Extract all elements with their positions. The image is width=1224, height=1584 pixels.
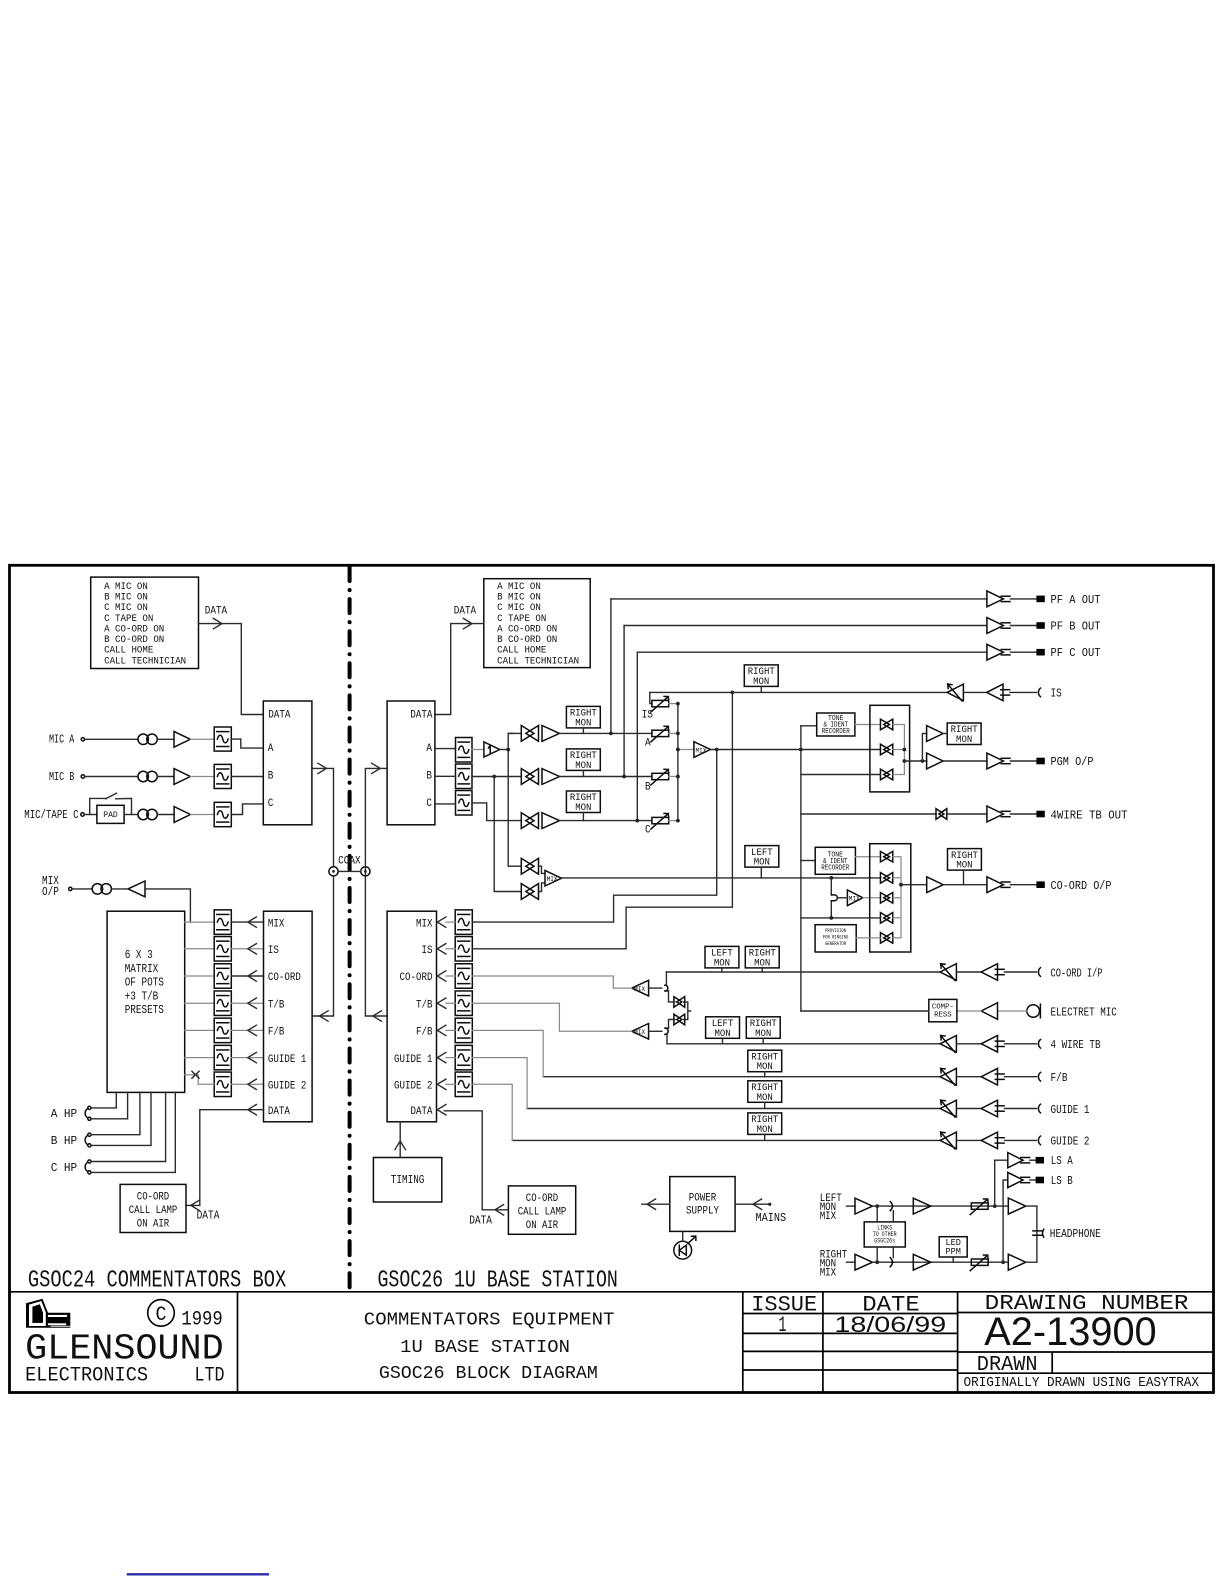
svg-text:CO-ORD I/P: CO-ORD I/P bbox=[1051, 966, 1103, 980]
pf B tap vertical bbox=[623, 626, 625, 777]
links to other gsgc26s box bbox=[864, 1222, 905, 1247]
right mon box (co-ord i/p) bbox=[745, 946, 779, 968]
pot IS bbox=[652, 700, 669, 706]
wire mix o/p to transformer bbox=[72, 888, 92, 890]
electret mic symbol bbox=[1027, 1005, 1040, 1018]
pf B output amp bbox=[987, 618, 1004, 634]
wire bus to pgm mix amp bbox=[678, 749, 694, 751]
wire pf A to square bbox=[1010, 598, 1036, 600]
junction links left bbox=[875, 1204, 879, 1208]
pf B output line bbox=[624, 625, 987, 627]
IS input amp bbox=[987, 684, 1003, 701]
amplifier mic B bbox=[174, 769, 190, 785]
svg-text:PGM O/P: PGM O/P bbox=[1051, 755, 1094, 769]
wire matrix to filter CO-ORD bbox=[185, 975, 215, 977]
tone & ident recorder 2 bbox=[815, 847, 855, 874]
amp channel A bbox=[542, 726, 560, 742]
co-ord output bus bbox=[893, 857, 901, 938]
arrow encoder to coax bbox=[318, 763, 327, 773]
wire amp to filter A bbox=[190, 738, 214, 740]
svg-text:MIX: MIX bbox=[820, 1211, 837, 1223]
filter (channel C) bbox=[456, 791, 473, 816]
svg-text:F/B: F/B bbox=[268, 1027, 285, 1039]
right monitor line bbox=[873, 1261, 1009, 1263]
wire filter to port MIX bbox=[231, 921, 263, 923]
wire coax to left return box bbox=[312, 876, 333, 1016]
svg-text:GUIDE 1: GUIDE 1 bbox=[268, 1054, 307, 1066]
svg-text:MIX: MIX bbox=[268, 918, 285, 930]
wire filter C to encoder port C bbox=[231, 804, 263, 815]
svg-text:IS: IS bbox=[268, 945, 279, 957]
coax connector left bbox=[329, 867, 338, 876]
tone & ident recorder 1 bbox=[817, 713, 855, 736]
right mon box (guide 1) bbox=[748, 1081, 782, 1103]
right DATA port arrow bbox=[437, 1105, 446, 1115]
svg-text:MON: MON bbox=[956, 861, 972, 872]
left status display box bbox=[91, 577, 199, 668]
wire port to filter MIX bbox=[446, 921, 455, 923]
wire matrix to filter T/B bbox=[185, 1002, 215, 1004]
wire port to filter IS bbox=[446, 948, 455, 950]
svg-text:T/B: T/B bbox=[268, 999, 285, 1011]
svg-text:MON: MON bbox=[956, 735, 972, 746]
svg-text:ON AIR: ON AIR bbox=[526, 1220, 559, 1232]
svg-text:RECORDER: RECORDER bbox=[821, 864, 850, 872]
svg-text:GSOC26 1U BASE STATION: GSOC26 1U BASE STATION bbox=[378, 1268, 618, 1295]
electret switch bracket to tb line bbox=[684, 1002, 691, 1020]
wire T4 amp link bbox=[111, 888, 128, 890]
headphone output bus bbox=[1036, 1206, 1038, 1262]
channel C line bbox=[560, 820, 653, 822]
left mon box (co-ord feed) bbox=[745, 846, 779, 868]
right mon box (co-ord out) bbox=[948, 849, 982, 871]
wire matrix to filter IS bbox=[185, 948, 215, 950]
svg-text:LS B: LS B bbox=[1051, 1174, 1073, 1188]
wire filter C jog to switch bbox=[472, 803, 521, 821]
co-ord switch 1 bbox=[880, 851, 889, 862]
svg-text:PAD: PAD bbox=[103, 810, 118, 820]
arrow right call lamp bbox=[495, 1205, 504, 1215]
f/b gain amp bbox=[940, 1068, 956, 1085]
port arrow IS bbox=[248, 944, 257, 954]
wire pot B to bus bbox=[669, 776, 678, 778]
svg-text:1: 1 bbox=[779, 1312, 787, 1338]
right return port arrow T/B bbox=[437, 998, 446, 1008]
svg-text:4 WIRE TB: 4 WIRE TB bbox=[1051, 1038, 1101, 1052]
wire compressor to tb bus bbox=[801, 1010, 929, 1012]
svg-text:DATA: DATA bbox=[197, 1208, 220, 1222]
wire electret switch 2 to tb mix bbox=[669, 1020, 675, 1029]
wire port to filter GUIDE 2 bbox=[446, 1083, 455, 1085]
wire co-ord mix amp to switch 3 bbox=[863, 897, 881, 899]
title block divider issue/date bbox=[822, 1292, 824, 1393]
guide 1 return stepped wire bbox=[472, 1058, 527, 1109]
filter (right return CO-ORD) bbox=[455, 964, 472, 989]
svg-text:C: C bbox=[156, 1304, 167, 1327]
wire filter to port F/B bbox=[231, 1029, 263, 1031]
svg-text:DATA: DATA bbox=[410, 709, 433, 721]
wire encoder to coax bbox=[312, 768, 334, 866]
wire T1 to amp bbox=[157, 738, 174, 740]
encoder multiplexer box (commentator) bbox=[263, 701, 312, 825]
wire recorder 1 to switch bbox=[855, 724, 881, 726]
t/b return stepped wire bbox=[472, 1003, 631, 1031]
right mon box (pgm) bbox=[947, 723, 981, 745]
svg-text:CALL TECHNICIAN: CALL TECHNICIAN bbox=[497, 655, 579, 667]
svg-text:RECORDER: RECORDER bbox=[822, 728, 851, 736]
co-ord i/p line bbox=[666, 971, 940, 973]
wire coax to right decoder bbox=[365, 768, 387, 876]
right return port arrow IS bbox=[437, 944, 446, 954]
co-ord output amp bbox=[987, 877, 1004, 893]
pf C tap vertical bbox=[636, 652, 638, 820]
right mon box (channel B) bbox=[566, 749, 600, 771]
amp channel C bbox=[542, 813, 560, 829]
transformer T4 (mix o/p) bbox=[92, 884, 103, 895]
svg-text:MIX: MIX bbox=[634, 1029, 645, 1036]
svg-text:PF C OUT: PF C OUT bbox=[1051, 646, 1101, 660]
junction ls b tap bbox=[1001, 1260, 1005, 1264]
filter (right return IS) bbox=[455, 937, 472, 962]
svg-text:C: C bbox=[645, 825, 651, 837]
pgm line amp bbox=[927, 753, 944, 769]
IS input jack bbox=[1038, 688, 1040, 697]
svg-text:COMP-: COMP- bbox=[932, 1004, 954, 1012]
right mon box (IS line) bbox=[744, 665, 778, 687]
wire right mon mix to amp bbox=[847, 1261, 856, 1263]
guide 2 gain amp bbox=[940, 1132, 956, 1149]
pgm output bus bbox=[893, 725, 905, 775]
svg-text:A2-13900: A2-13900 bbox=[984, 1310, 1156, 1354]
wire switch to amp 4wire bbox=[947, 813, 987, 815]
amp channel B bbox=[542, 769, 560, 785]
svg-text:GUIDE 1: GUIDE 1 bbox=[1051, 1103, 1090, 1117]
port arrow CO-ORD bbox=[248, 971, 257, 981]
wire amp to compressor bbox=[957, 1010, 981, 1012]
co-ord return stepped wire bbox=[472, 976, 631, 988]
headphone A wires bbox=[91, 1092, 116, 1108]
electret mic amp bbox=[981, 1003, 997, 1020]
svg-text:GSOC26 BLOCK DIAGRAM: GSOC26 BLOCK DIAGRAM bbox=[379, 1364, 598, 1384]
right mon box (guide 2) bbox=[748, 1113, 782, 1135]
wire matrix to filter MIX bbox=[185, 921, 215, 923]
switch channel B bbox=[521, 769, 534, 785]
junction pgm monitor tap bbox=[715, 748, 719, 752]
issue/date row lines bbox=[743, 1313, 958, 1315]
junction IS down-feed bbox=[731, 691, 735, 695]
pf A output amp bbox=[987, 591, 1004, 607]
svg-text:PF A OUT: PF A OUT bbox=[1051, 593, 1101, 607]
junction pgm monitor amp tap bbox=[921, 759, 925, 763]
wire decoder C to filter bbox=[435, 803, 456, 805]
monitor switch A (co-ord feed) bbox=[508, 865, 521, 867]
svg-text:MIC B: MIC B bbox=[49, 770, 74, 784]
svg-text:B HP: B HP bbox=[51, 1134, 77, 1148]
right return port arrow MIX bbox=[437, 917, 446, 927]
co-ord i/p gain amp bbox=[940, 964, 956, 981]
wire co-ord bus out bbox=[901, 884, 927, 886]
wire port to filter T/B bbox=[446, 1002, 455, 1004]
left return decoder box bbox=[264, 911, 313, 1122]
right status DATA wire bbox=[435, 624, 484, 715]
coax link wire bbox=[338, 870, 361, 872]
svg-text:LS A: LS A bbox=[1051, 1154, 1074, 1168]
blue footer underline bbox=[127, 1573, 269, 1575]
wire unity amp to A node bbox=[500, 749, 509, 751]
tb receive mix amp bbox=[632, 1024, 649, 1040]
pot summing bus bbox=[677, 704, 679, 821]
wire decoder A to filter bbox=[435, 748, 456, 750]
pf A output line bbox=[611, 598, 987, 600]
headphone C wires bbox=[91, 1092, 166, 1161]
filter (channel A) bbox=[456, 738, 473, 763]
svg-text:GSGC26s: GSGC26s bbox=[874, 1237, 895, 1244]
svg-text:GUIDE 1: GUIDE 1 bbox=[394, 1054, 433, 1066]
wire right coax drop bbox=[365, 876, 387, 1016]
svg-text:GUIDE 2: GUIDE 2 bbox=[1051, 1135, 1090, 1149]
svg-text:ON AIR: ON AIR bbox=[137, 1219, 170, 1231]
pgm switch matrix box bbox=[870, 705, 910, 792]
wire port to filter GUIDE 1 bbox=[446, 1057, 455, 1059]
right return port arrow CO-ORD bbox=[437, 971, 446, 981]
filter (left return CO-ORD) bbox=[214, 964, 231, 989]
filter (left return F/B) bbox=[214, 1018, 231, 1043]
svg-text:RESS: RESS bbox=[934, 1012, 952, 1020]
headphone left amp bbox=[1008, 1198, 1026, 1214]
wire matrix to filter GUIDE 1 bbox=[185, 1057, 215, 1059]
filter (right return T/B) bbox=[455, 991, 472, 1016]
wire T2 to amp bbox=[157, 776, 174, 778]
svg-text:MIC/TAPE C: MIC/TAPE C bbox=[24, 808, 78, 822]
co-ord i/p input amp bbox=[981, 964, 997, 981]
right return port arrow F/B bbox=[437, 1025, 446, 1035]
amplifier mic C bbox=[174, 807, 190, 823]
junction links right bbox=[875, 1260, 879, 1264]
f/b jack bbox=[1038, 1072, 1040, 1081]
pad bypass switch (mic C) bbox=[90, 798, 132, 814]
headphone B jack bbox=[85, 1136, 87, 1145]
pf B output square bbox=[1036, 622, 1044, 629]
wire filter B to encoder port B bbox=[231, 776, 263, 778]
pgm output amp bbox=[987, 753, 1004, 769]
svg-text:GENERATOR: GENERATOR bbox=[825, 940, 846, 947]
mains input wire bbox=[735, 1203, 770, 1205]
svg-text:C: C bbox=[426, 798, 432, 810]
arrow into left call lamp bbox=[191, 1200, 200, 1210]
guide 1 jack bbox=[1038, 1104, 1040, 1113]
left mon mix amp bbox=[855, 1198, 873, 1214]
port arrow GUIDE 2 bbox=[248, 1079, 257, 1089]
svg-text:COAX: COAX bbox=[338, 855, 361, 867]
4wire tb input amp bbox=[981, 1036, 997, 1053]
svg-text:A: A bbox=[645, 738, 651, 750]
filter (mic A low-pass) bbox=[214, 727, 231, 751]
port arrow MIX bbox=[248, 917, 257, 927]
pot channel A bbox=[652, 730, 669, 736]
filter (right return F/B) bbox=[455, 1018, 472, 1043]
drawing number row lines bbox=[958, 1312, 1214, 1314]
f/b line bbox=[543, 1076, 940, 1078]
unity inverting amp channel A bbox=[484, 742, 500, 757]
pot channel B bbox=[652, 773, 669, 779]
filter (right return MIX) bbox=[455, 910, 472, 935]
4wire output amp bbox=[987, 806, 1004, 822]
svg-text:PRESETS: PRESETS bbox=[125, 1004, 164, 1017]
guide 2 return stepped wire bbox=[472, 1084, 512, 1140]
amplifier mic A bbox=[174, 731, 190, 747]
wire A to switch bbox=[508, 732, 513, 734]
svg-text:A: A bbox=[268, 743, 274, 755]
right mon box (f/b) bbox=[748, 1050, 782, 1072]
svg-text:DATA: DATA bbox=[205, 606, 228, 618]
transformer T3 (mic C) bbox=[138, 809, 149, 820]
copyright symbol bbox=[148, 1300, 175, 1327]
wire bus tee to pgm switch 3 bbox=[801, 774, 881, 776]
filter (left return GUIDE 1) bbox=[214, 1045, 231, 1070]
left DATA port arrow bbox=[248, 1105, 257, 1115]
right mon box (4 wire tb) bbox=[746, 1017, 780, 1039]
svg-text:MIC A: MIC A bbox=[49, 733, 75, 747]
svg-text:DATA: DATA bbox=[454, 606, 477, 618]
wire pot C to bus bbox=[669, 820, 678, 822]
wire pgm bus out bbox=[904, 760, 926, 762]
wire left mon mix to amp bbox=[847, 1205, 856, 1207]
wire electret switch 1 to co-ord mix bbox=[669, 991, 675, 1002]
pf A tap vertical bbox=[610, 599, 612, 734]
co-ord output wire bbox=[943, 884, 987, 886]
ls a feed vertical bbox=[995, 1160, 1008, 1206]
junction co-ord mix tap bbox=[829, 876, 833, 880]
filter (left return IS) bbox=[214, 937, 231, 962]
wire provision to co-ord switch 5 bbox=[856, 937, 880, 939]
channel B line bbox=[560, 776, 653, 778]
wire timing to return box bbox=[399, 1122, 401, 1158]
co-ord mix feed verticals and curly bbox=[830, 878, 832, 918]
svg-text:T/B: T/B bbox=[416, 999, 433, 1011]
arrow into right return box feed bbox=[373, 1011, 382, 1021]
svg-text:C: C bbox=[268, 798, 274, 810]
left DATA port wire to call lamp bbox=[186, 1110, 264, 1206]
left 6x3 matrix of pots box bbox=[107, 911, 185, 1092]
monitor mix amplifier bbox=[545, 870, 562, 886]
svg-text:HEADPHONE: HEADPHONE bbox=[1050, 1227, 1101, 1241]
left status DATA arrow bbox=[213, 618, 222, 628]
right decoder multiplexer box bbox=[387, 701, 435, 825]
svg-text:GLENSOUND: GLENSOUND bbox=[25, 1328, 224, 1369]
svg-text:CALL TECHNICIAN: CALL TECHNICIAN bbox=[104, 655, 186, 667]
svg-text:O/P: O/P bbox=[42, 886, 59, 899]
port arrow T/B bbox=[248, 998, 257, 1008]
filter (left return GUIDE 2) bbox=[214, 1072, 231, 1097]
filter (right return GUIDE 2) bbox=[455, 1072, 472, 1097]
left status DATA wire bbox=[199, 624, 264, 715]
pf C output line bbox=[637, 651, 987, 653]
svg-text:MIX: MIX bbox=[547, 876, 558, 883]
svg-text:MIX: MIX bbox=[416, 918, 433, 930]
co-ord output square bbox=[1036, 881, 1044, 888]
svg-text:PPM: PPM bbox=[945, 1246, 961, 1257]
headphone A jack bbox=[85, 1109, 87, 1118]
svg-text:CALL LAMP: CALL LAMP bbox=[518, 1206, 567, 1218]
svg-text:B: B bbox=[268, 771, 274, 783]
svg-text:A HP: A HP bbox=[51, 1107, 77, 1121]
filter (mic C) bbox=[214, 802, 231, 826]
svg-text:LTD: LTD bbox=[195, 1365, 225, 1388]
pgm mix output line bbox=[710, 749, 880, 751]
links box stubs bbox=[877, 1206, 893, 1262]
right data wire to call lamp bbox=[444, 1111, 508, 1210]
wire filter B to switch tap bbox=[472, 776, 521, 778]
title block divider title cell bbox=[742, 1292, 744, 1393]
provision for ringing generator box bbox=[815, 925, 856, 952]
svg-text:GUIDE 2: GUIDE 2 bbox=[394, 1081, 433, 1093]
filter (channel B) bbox=[456, 764, 473, 789]
svg-text:IS: IS bbox=[422, 945, 433, 957]
arrow power output bbox=[647, 1199, 656, 1209]
f/b return stepped wire bbox=[472, 1030, 543, 1076]
mic B wire to transformer bbox=[85, 776, 138, 778]
mic B terminal bbox=[81, 775, 84, 778]
svg-text:PF B OUT: PF B OUT bbox=[1051, 620, 1101, 634]
arrow into left return box bbox=[320, 1011, 329, 1021]
co-ord switch 4 bbox=[880, 913, 889, 924]
co-ord monitor mix amp bbox=[847, 890, 863, 906]
svg-text:MATRIX: MATRIX bbox=[125, 963, 159, 976]
wire filter to port IS bbox=[231, 948, 263, 950]
svg-text:DATA: DATA bbox=[268, 709, 291, 721]
filter (left return MIX) bbox=[214, 910, 231, 935]
arrow coax to right decoder bbox=[372, 763, 381, 773]
svg-text:ELECTRET MIC: ELECTRET MIC bbox=[1051, 1005, 1117, 1019]
wire pad to transformer bbox=[124, 814, 138, 816]
mic A wire to transformer bbox=[85, 738, 138, 740]
svg-text:GUIDE 2: GUIDE 2 bbox=[268, 1081, 307, 1093]
IS monitor line bbox=[650, 691, 947, 693]
arrow mains bbox=[753, 1199, 762, 1209]
channel A pre-fade vertical bbox=[507, 733, 509, 866]
svg-text:F/B: F/B bbox=[416, 1027, 433, 1039]
wire decoder B to filter bbox=[435, 775, 456, 777]
port arrow GUIDE 1 bbox=[248, 1052, 257, 1062]
wire ls a square bbox=[1030, 1159, 1036, 1161]
power lamp bbox=[674, 1241, 692, 1259]
ls a amp bbox=[1008, 1153, 1023, 1168]
wire terminal to pad bbox=[84, 814, 97, 816]
timing box bbox=[373, 1158, 441, 1203]
svg-text:IS: IS bbox=[1051, 687, 1062, 701]
led ppm tick bbox=[952, 1257, 954, 1262]
wire bus to tone recorder 1 bbox=[801, 725, 817, 727]
left co-ord call lamp box bbox=[120, 1184, 186, 1232]
wire pf B to square bbox=[1010, 625, 1036, 627]
wire amp to filter C bbox=[190, 814, 214, 816]
left mon box (co-ord i/p) bbox=[705, 946, 739, 968]
headphone B wires bbox=[91, 1092, 140, 1134]
wire mix o/p feed bbox=[145, 889, 190, 922]
svg-text:6 X 3: 6 X 3 bbox=[125, 949, 153, 962]
pgm switch 3 bbox=[880, 769, 889, 780]
wire filter to port GUIDE 1 bbox=[231, 1057, 263, 1059]
svg-text:+3 T/B: +3 T/B bbox=[125, 990, 159, 1003]
headphone C jack bbox=[85, 1163, 87, 1172]
right mon mix amp bbox=[855, 1254, 873, 1270]
svg-text:CO-ORD: CO-ORD bbox=[400, 972, 433, 984]
svg-text:CO-ORD: CO-ORD bbox=[137, 1192, 169, 1204]
wire bus tee to co-ord switch 4 bbox=[801, 917, 881, 919]
right status display box bbox=[484, 579, 590, 668]
pf A output square bbox=[1036, 596, 1044, 603]
co-ord i/p jack bbox=[1038, 968, 1040, 977]
